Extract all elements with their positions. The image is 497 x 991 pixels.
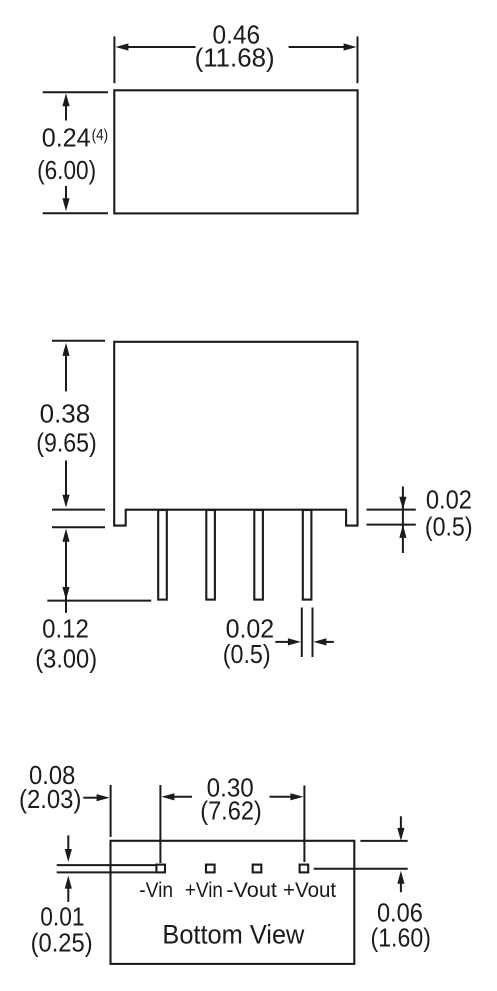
dim 0.12 arrow up <box>62 529 69 542</box>
dim 0.01 arrow up <box>65 876 72 889</box>
dim 0.46 dimension line left segment <box>126 46 196 48</box>
dim 0.30 extension line pin1 <box>159 785 161 863</box>
dim 0.24 extension line bottom <box>43 212 108 214</box>
svg-text:(7.62): (7.62) <box>200 796 262 826</box>
dim 0.01 arrow down <box>67 835 69 850</box>
dim 0.46 dimension line right segment <box>289 46 346 48</box>
pin 1 (side) <box>158 510 167 600</box>
dim 0.08 extension line (body edge) <box>110 785 112 837</box>
svg-text:(0.25): (0.25) <box>31 928 93 958</box>
svg-text:(1.60): (1.60) <box>371 923 431 953</box>
top view body rectangle <box>114 90 357 213</box>
svg-text:(9.65): (9.65) <box>36 428 97 458</box>
dim 0.30 arrowhead left-pointing <box>161 793 174 800</box>
dim 0.46 extension line left <box>113 36 115 83</box>
pin width dim arrowhead left-pointing <box>313 638 326 645</box>
dim 0.24 arrow down <box>65 186 67 201</box>
dim 0.38 arrow up <box>62 343 69 356</box>
svg-text:(11.68): (11.68) <box>195 42 275 72</box>
dim 0.30 dimension line left segment <box>174 796 192 798</box>
dim 0.24 arrow up <box>62 93 69 106</box>
standoff dim arrow up <box>399 525 406 538</box>
svg-text:-Vin: -Vin <box>139 879 173 902</box>
svg-text:(6.00): (6.00) <box>37 155 96 185</box>
svg-text:Bottom View: Bottom View <box>162 920 304 950</box>
dim 0.08 leader and arrowhead <box>83 797 98 799</box>
side view body outline with standoff feet <box>114 342 357 526</box>
svg-text:0.24: 0.24 <box>42 123 91 153</box>
dim 0.12 shaft <box>65 540 67 613</box>
svg-text:+Vin: +Vin <box>185 879 223 902</box>
svg-text:+Vout: +Vout <box>283 879 336 902</box>
bottom view pad pin 4 <box>300 865 309 873</box>
dim 0.06 arrow down <box>400 816 402 830</box>
bottom view pad pin 1 <box>156 865 165 873</box>
pin 3 (side) <box>254 510 263 600</box>
pin width dim leader left <box>275 641 289 643</box>
svg-text:0.38: 0.38 <box>40 399 91 429</box>
standoff dim arrow down <box>399 497 406 510</box>
pin width dim extension line right <box>312 608 314 658</box>
bottom view body rectangle <box>111 841 355 964</box>
dim 0.46 extension line right <box>357 36 359 83</box>
dim 0.12 extension line at pin bottom <box>47 600 151 602</box>
dim 0.30 dimension line right segment <box>270 796 292 798</box>
dim 0.30 arrowhead right-pointing <box>290 793 303 800</box>
dim 0.38 extension line bottom <box>52 509 105 511</box>
standoff dim extension line upper <box>367 509 416 511</box>
pin width dim leader right <box>326 641 334 643</box>
standoff dim shaft <box>402 487 404 554</box>
dim 0.06 arrow up <box>397 871 404 884</box>
bottom view pad pin 2 <box>206 865 215 873</box>
pin row lower line (left) <box>57 871 156 873</box>
svg-text:(0.5): (0.5) <box>223 639 271 669</box>
pin width dim extension line left <box>301 608 303 658</box>
pin width dim arrowhead right-pointing <box>288 638 301 645</box>
dim 0.06 extension line top right <box>360 840 407 842</box>
dim 0.46 arrowhead left <box>115 43 128 50</box>
svg-text:-Vout: -Vout <box>226 879 277 902</box>
dim 0.30 extension line pin4 <box>303 786 305 863</box>
standoff dim extension line lower <box>367 524 416 526</box>
dim 0.12 arrow down <box>62 587 69 600</box>
svg-text:0.02: 0.02 <box>426 485 472 515</box>
svg-text:(2.03): (2.03) <box>19 784 81 814</box>
svg-text:(4): (4) <box>92 127 109 144</box>
svg-text:0.12: 0.12 <box>42 614 89 644</box>
dim 0.12 extension line at foot bottom <box>52 526 105 528</box>
bottom view pad pin 3 <box>253 865 262 873</box>
pin row line (right) <box>314 868 408 870</box>
dim 0.38 extension line top <box>52 340 105 342</box>
dim 0.46 arrowhead right <box>344 43 357 50</box>
pin 2 (side) <box>206 510 215 600</box>
svg-text:(3.00): (3.00) <box>35 644 97 674</box>
pin row upper line (left) <box>57 864 156 866</box>
svg-text:(0.5): (0.5) <box>425 512 473 542</box>
dim 0.38 arrow down <box>65 461 67 496</box>
dim 0.24 extension line top <box>43 91 108 93</box>
pin 4 (side) <box>303 510 312 600</box>
